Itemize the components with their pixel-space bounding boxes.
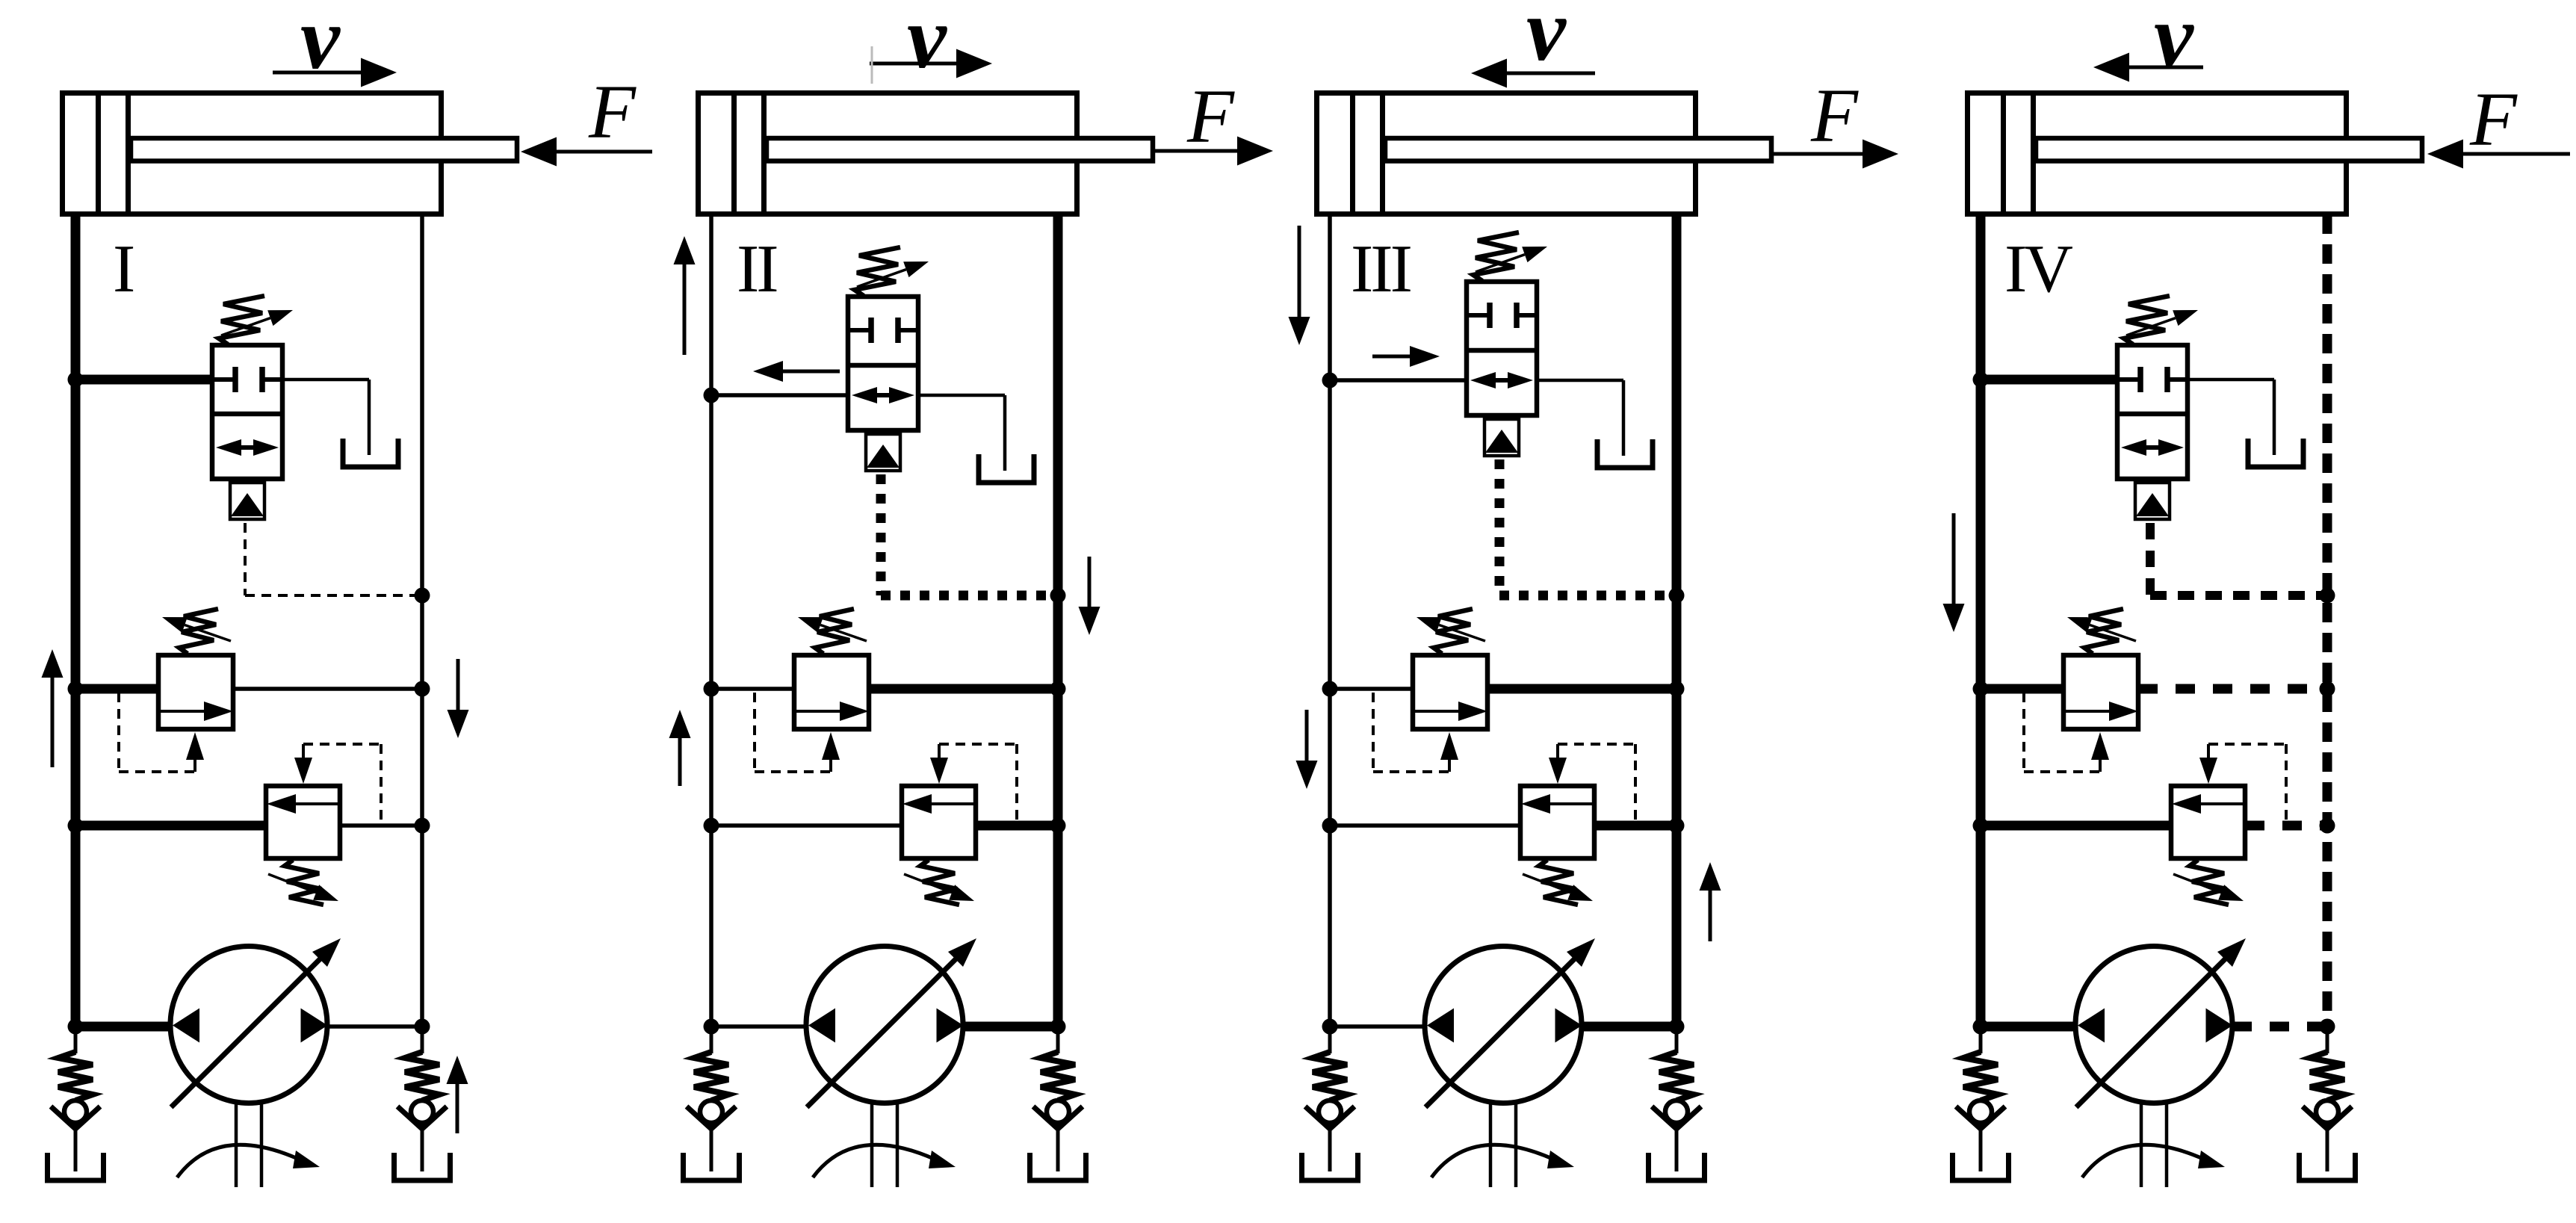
node junction left-V1 II — [704, 388, 719, 403]
node junction left-pump III — [1322, 1019, 1338, 1035]
svg-text:F: F — [588, 69, 637, 155]
check valve CV1-II — [684, 1027, 740, 1180]
node junction right-V3 II — [1050, 818, 1066, 834]
flow arrow down left line III mid — [1305, 710, 1309, 761]
check valve CV2-II — [1030, 1027, 1086, 1180]
node junction left-V2 IV — [1973, 681, 1989, 697]
variable displacement pump P-IV — [2075, 938, 2246, 1187]
cylinder CYL-III — [1317, 93, 1772, 214]
wire right return line II — [1053, 214, 1063, 1027]
wire branch right of valve V3-I — [340, 823, 422, 828]
hydraulic circuit quadrant I — [42, 0, 653, 1187]
cylinder CYL-II — [699, 93, 1154, 214]
check valve CV1-I — [48, 1027, 104, 1180]
pilot-operated 2/2 valve V1-II — [848, 297, 918, 471]
wire branch left to valve V3-III — [1330, 823, 1520, 828]
flow arrow into valve V1-II — [783, 370, 840, 374]
wire pump suction III — [1330, 1024, 1425, 1029]
wire branch right of valve V2-I — [233, 687, 422, 691]
tank T1-I — [343, 439, 398, 467]
wire drain of V1-III — [1537, 379, 1623, 383]
velocity arrow III — [1507, 72, 1595, 75]
relief valve V3-II — [902, 744, 1017, 905]
wire branch right of valve V3-IV — [2245, 821, 2327, 831]
node junction right-V2 II — [1050, 681, 1066, 697]
tick at velocity arrow tail II — [871, 46, 873, 84]
flow arrow down left line III top — [1298, 226, 1301, 317]
node pilot junction IV — [2320, 588, 2335, 604]
tank T1-III — [1597, 439, 1653, 468]
pressure valve V2-IV — [2024, 609, 2138, 772]
wire drain of V1-IV — [2188, 378, 2274, 382]
node junction left-pump IV — [1973, 1019, 1989, 1035]
wire right return line IV — [2323, 214, 2332, 1027]
wire left supply line I — [71, 214, 81, 1027]
svg-text:IV: IV — [2004, 231, 2072, 306]
wire branch left to valve V2-II — [711, 687, 794, 691]
spring of valve V1-I — [219, 296, 293, 344]
wire branch right of valve V2-IV — [2138, 684, 2327, 694]
flow arrow up left line II mid — [678, 738, 682, 786]
wire drain of V1-II — [918, 394, 1005, 397]
node pilot junction III — [1669, 588, 1685, 604]
flow arrow down right line I — [456, 659, 460, 710]
variable displacement pump P-II — [806, 938, 976, 1187]
flow arrow up right line III — [1709, 891, 1712, 941]
wire pump outlet IV — [2232, 1022, 2327, 1032]
node junction left-V3 III — [1322, 818, 1338, 834]
node junction right-V3 IV — [2320, 818, 2335, 834]
svg-text:F: F — [2469, 77, 2518, 162]
node junction left-V1 I — [68, 372, 84, 388]
pressure valve V2-II — [755, 609, 869, 772]
node junction right-pump II — [1050, 1019, 1066, 1035]
wire left supply line IV — [1976, 214, 1986, 1027]
svg-text:v: v — [2154, 0, 2194, 85]
cylinder CYL-I — [63, 93, 518, 214]
flow arrow up check valve I — [456, 1084, 459, 1133]
node junction right-V2 I — [415, 681, 430, 697]
node junction left-pump I — [68, 1019, 84, 1035]
svg-text:v: v — [907, 0, 947, 87]
node junction left-V2 III — [1322, 681, 1338, 697]
pilot-operated 2/2 valve V1-IV — [2117, 345, 2188, 519]
flow arrow down right line II — [1088, 557, 1092, 607]
pilot line of V1-I — [244, 523, 247, 595]
pressure valve V2-I — [119, 609, 233, 772]
node pilot junction II — [1050, 588, 1066, 604]
check valve CV2-III — [1649, 1027, 1705, 1180]
node junction left-V3 IV — [1973, 818, 1989, 834]
pilot line of V1-III — [1495, 459, 1505, 595]
relief valve V3-III — [1520, 744, 1635, 905]
wire pump suction IV — [1981, 1022, 2075, 1032]
force arrow F II — [1154, 149, 1237, 153]
force arrow F I — [557, 150, 652, 154]
node junction right-pump IV — [2320, 1019, 2335, 1035]
svg-text:F: F — [1810, 73, 1859, 158]
wire branch left to valve V2-I — [75, 684, 158, 694]
hydraulic circuit quadrant IV — [1943, 0, 2571, 1187]
wire branch left to valve V2-III — [1330, 687, 1413, 691]
svg-text:F: F — [1186, 74, 1235, 159]
flow arrow into valve V1-III — [1372, 355, 1410, 359]
velocity arrow I — [273, 71, 361, 75]
wire branch to valve V1-IV — [1981, 375, 2117, 385]
svg-text:II: II — [737, 231, 777, 306]
force arrow F III — [1772, 152, 1863, 156]
check valve CV2-IV — [2300, 1027, 2356, 1180]
variable displacement pump P-I — [170, 938, 341, 1187]
node junction left-V2 I — [68, 681, 84, 697]
wire branch left to valve V3-IV — [1981, 821, 2171, 831]
node junction right-pump I — [415, 1019, 430, 1035]
force arrow F IV — [2463, 152, 2570, 156]
wire right return line III — [1672, 214, 1682, 1027]
node junction left-V1 III — [1322, 373, 1338, 388]
node junction left-V3 I — [68, 818, 84, 834]
velocity arrow IV — [2129, 66, 2203, 69]
wire left supply line II — [709, 214, 713, 1027]
wire branch right of valve V2-III — [1487, 684, 1676, 694]
variable displacement pump P-III — [1425, 938, 1595, 1187]
pilot-operated 2/2 valve V1-I — [212, 345, 282, 519]
wire drain of V1-I — [282, 378, 369, 382]
wire branch right of valve V3-II — [976, 821, 1058, 831]
tank T1-IV — [2248, 439, 2303, 467]
wire branch to valve V1-II — [711, 393, 848, 397]
wire branch right of valve V3-III — [1594, 821, 1676, 831]
wire branch to valve V1-I — [75, 375, 212, 385]
spring of valve V1-III — [1473, 232, 1547, 281]
node junction left-pump II — [704, 1019, 719, 1035]
node pilot junction I — [415, 588, 430, 604]
node junction right-V2 IV — [2320, 681, 2335, 697]
wire branch left to valve V3-I — [75, 821, 266, 831]
check valve CV2-I — [394, 1027, 451, 1180]
svg-text:v: v — [1526, 0, 1567, 79]
wire branch left to valve V3-II — [711, 823, 902, 828]
spring of valve V1-IV — [2124, 296, 2198, 344]
cylinder CYL-IV — [1968, 93, 2423, 214]
wire left supply line III — [1328, 214, 1332, 1027]
node junction right-V2 III — [1669, 681, 1685, 697]
pilot line of V1-IV — [2146, 523, 2155, 595]
hydraulic circuit quadrant III — [1289, 0, 1899, 1187]
wire pump outlet II — [963, 1022, 1058, 1032]
node junction left-V1 IV — [1973, 372, 1989, 388]
node junction right-V3 I — [415, 818, 430, 834]
relief valve V3-I — [266, 744, 381, 905]
hydraulic circuit quadrant II — [669, 0, 1274, 1187]
svg-text:I: I — [113, 231, 134, 306]
wire pump outlet III — [1582, 1022, 1676, 1032]
wire pump suction I — [75, 1022, 170, 1032]
tank T1-II — [979, 454, 1034, 483]
wire right return line I — [420, 214, 424, 1027]
wire pump outlet I — [327, 1024, 422, 1029]
pressure valve V2-III — [1373, 609, 1487, 772]
node junction left-V3 II — [704, 818, 719, 834]
wire pump suction II — [711, 1024, 806, 1029]
pilot-operated 2/2 valve V1-III — [1467, 282, 1537, 456]
wire branch to valve V1-III — [1330, 378, 1467, 383]
node junction right-V3 III — [1669, 818, 1685, 834]
wire branch right of valve V2-II — [869, 684, 1058, 694]
node junction right-pump III — [1669, 1019, 1685, 1035]
wire branch left to valve V2-IV — [1981, 684, 2063, 694]
flow arrow up left line I — [51, 678, 55, 767]
relief valve V3-IV — [2171, 744, 2286, 905]
flow arrow up left line II top — [683, 264, 687, 355]
check valve CV1-IV — [1953, 1027, 2009, 1180]
check valve CV1-III — [1302, 1027, 1358, 1180]
pilot line of V1-II — [876, 474, 886, 595]
node junction left-V2 II — [704, 681, 719, 697]
velocity arrow II — [870, 62, 956, 66]
flow arrow down left line IV — [1952, 513, 1956, 604]
spring of valve V1-II — [855, 247, 929, 296]
svg-text:III: III — [1351, 231, 1411, 306]
